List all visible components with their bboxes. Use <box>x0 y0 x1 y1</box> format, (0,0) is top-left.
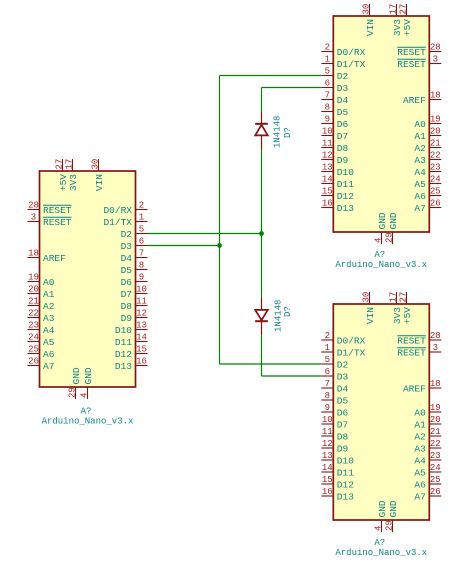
A?-topright pin 24 (A5) <box>414 175 441 190</box>
svg-text:D2: D2 <box>337 359 349 370</box>
svg-text:GND: GND <box>83 367 94 384</box>
A?-topright pin 19 (A0) <box>414 115 441 130</box>
svg-text:A2: A2 <box>414 143 426 154</box>
A?-left pin 29 (GND) GND pin bottom <box>67 367 82 399</box>
A?-topright pin 4 (GND) GND pin bottom <box>373 212 388 244</box>
A?-left pin 8 (D5) <box>121 261 148 276</box>
svg-text:D9: D9 <box>337 443 349 454</box>
junction: left D2 net to diode column <box>259 231 264 236</box>
A?-left pin 28 (RESET) <box>28 201 72 216</box>
svg-text:RESET: RESET <box>43 205 72 216</box>
svg-text:28: 28 <box>430 43 441 53</box>
svg-text:+5V: +5V <box>402 19 413 36</box>
A?-botright pin 28 (RESET) <box>397 331 441 346</box>
A?-left pin 6 (D3) <box>121 237 148 252</box>
svg-text:D13: D13 <box>337 491 354 502</box>
svg-text:13: 13 <box>322 451 333 461</box>
svg-text:19: 19 <box>430 403 441 413</box>
svg-text:+5V: +5V <box>402 307 413 324</box>
svg-text:20: 20 <box>430 127 441 137</box>
svg-text:D13: D13 <box>337 203 354 214</box>
svg-text:D?: D? <box>283 127 293 138</box>
svg-text:D11: D11 <box>337 467 354 478</box>
svg-text:15: 15 <box>322 475 333 485</box>
wire: diode D1 top to top-right A? D3 (pin6) <box>262 87 322 89</box>
svg-text:D11: D11 <box>337 179 354 190</box>
svg-text:A2: A2 <box>414 431 426 442</box>
svg-text:A3: A3 <box>414 155 426 166</box>
svg-text:D10: D10 <box>115 325 132 336</box>
A?-botright pin 23 (A4) <box>414 451 441 466</box>
svg-text:GND: GND <box>377 500 388 517</box>
diode D?-top 1N4148 <box>255 112 268 149</box>
A?-topright pin 18 (AREF) <box>403 91 441 106</box>
svg-text:A1: A1 <box>43 289 55 300</box>
wire: diode D2 bottom to bottom-right A? D3 (pin6) <box>262 375 322 377</box>
A?-topright pin 23 (A4) <box>414 163 441 178</box>
svg-text:D10: D10 <box>337 167 354 178</box>
svg-text:D10: D10 <box>337 455 354 466</box>
svg-text:14: 14 <box>322 463 333 473</box>
wire: top horizontal to top-right A? D2 (pin5) <box>220 75 322 77</box>
A?-left pin 15 (D12) <box>115 345 148 360</box>
A?-left pin 25 (A6) <box>28 345 55 360</box>
svg-text:A0: A0 <box>414 407 426 418</box>
svg-text:RESET: RESET <box>397 59 426 70</box>
A?-botright pin 22 (A3) <box>414 439 441 454</box>
svg-text:2: 2 <box>325 331 330 341</box>
A?-left pin 19 (A0) <box>28 273 55 288</box>
svg-text:27: 27 <box>54 159 64 170</box>
Arduino Nano A?-topright: body <box>333 16 429 232</box>
A?-topright pin 25 (A6) <box>414 187 441 202</box>
svg-text:2: 2 <box>139 201 144 211</box>
A?-left pin 27 (+5V) power pin top <box>54 159 69 191</box>
svg-text:RESET: RESET <box>397 47 426 58</box>
A?-topright pin 15 (D12) <box>321 187 354 202</box>
svg-text:D5: D5 <box>337 107 349 118</box>
diode D?-top reference D? <box>283 127 293 138</box>
A?-left pin 11 (D8) <box>121 297 148 312</box>
svg-text:22: 22 <box>28 309 39 319</box>
svg-text:4: 4 <box>373 238 383 243</box>
svg-text:25: 25 <box>28 345 39 355</box>
svg-text:25: 25 <box>430 187 441 197</box>
svg-text:3: 3 <box>433 55 438 65</box>
svg-text:D6: D6 <box>337 119 349 130</box>
svg-text:D1/TX: D1/TX <box>337 347 366 358</box>
A?-botright pin 13 (D10) <box>321 451 354 466</box>
svg-text:D6: D6 <box>121 277 133 288</box>
A?-topright pin 1 (D1/TX) <box>321 55 365 70</box>
svg-text:RESET: RESET <box>397 347 426 358</box>
A?-topright pin 27 (+5V) power pin top <box>398 4 413 36</box>
svg-text:15: 15 <box>322 187 333 197</box>
svg-text:A7: A7 <box>414 203 425 214</box>
A?-left pin 9 (D6) <box>121 273 148 288</box>
svg-text:GND: GND <box>388 212 399 229</box>
A?-topright pin 16 (D13) <box>321 199 354 214</box>
svg-text:14: 14 <box>322 175 333 185</box>
svg-text:AREF: AREF <box>403 95 426 106</box>
A?-botright pin 4 (GND) GND pin bottom <box>373 500 388 532</box>
diode D?-bottom reference D? <box>283 306 293 317</box>
svg-text:D13: D13 <box>115 361 132 372</box>
svg-text:A0: A0 <box>414 119 426 130</box>
svg-text:3V3: 3V3 <box>68 174 79 191</box>
svg-text:16: 16 <box>136 357 147 367</box>
svg-text:GND: GND <box>377 212 388 229</box>
svg-text:24: 24 <box>430 463 441 473</box>
svg-text:12: 12 <box>322 439 333 449</box>
svg-text:GND: GND <box>388 500 399 517</box>
wire: vertical bus connecting top-right D2 and bottom-right D2 <box>219 76 221 365</box>
svg-text:14: 14 <box>136 333 147 343</box>
svg-text:A1: A1 <box>414 131 426 142</box>
svg-text:D11: D11 <box>115 337 132 348</box>
A?-botright pin 12 (D9) <box>321 439 348 454</box>
svg-text:13: 13 <box>322 163 333 173</box>
svg-text:A5: A5 <box>414 179 426 190</box>
svg-text:D8: D8 <box>121 301 133 312</box>
svg-text:26: 26 <box>28 357 39 367</box>
wire: left A? D3 (pin6) to vertical bus <box>148 245 220 247</box>
A?-topright pin 21 (A2) <box>414 139 441 154</box>
svg-text:AREF: AREF <box>403 383 426 394</box>
A?-topright pin 3 (RESET) <box>397 55 441 70</box>
svg-text:1: 1 <box>325 55 330 65</box>
A?-left pin 22 (A3) <box>28 309 55 324</box>
A?-topright pin 30 (VIN) power pin top <box>361 4 376 36</box>
A?-topright pin 13 (D10) <box>321 163 354 178</box>
svg-text:13: 13 <box>136 321 147 331</box>
svg-text:20: 20 <box>430 415 441 425</box>
A?-botright pin 26 (A7) <box>414 487 441 502</box>
svg-text:24: 24 <box>430 175 441 185</box>
A?-botright pin 24 (A5) <box>414 463 441 478</box>
A?-topright pin 17 (3V3) power pin top <box>388 4 403 36</box>
svg-text:18: 18 <box>430 91 441 101</box>
svg-text:D3: D3 <box>337 83 349 94</box>
svg-text:A5: A5 <box>414 467 426 478</box>
svg-text:A6: A6 <box>43 349 55 360</box>
svg-text:D9: D9 <box>337 155 349 166</box>
diode D?-top value 1N4148 <box>273 116 283 148</box>
A?-left value Arduino_Nano_v3.x <box>42 417 134 427</box>
svg-text:A?: A? <box>81 407 92 417</box>
svg-text:29: 29 <box>384 520 394 531</box>
A?-left pin 23 (A4) <box>28 321 55 336</box>
A?-left pin 24 (A5) <box>28 333 55 348</box>
svg-text:17: 17 <box>64 159 74 170</box>
svg-text:23: 23 <box>430 451 441 461</box>
svg-text:D4: D4 <box>337 95 349 106</box>
svg-text:Arduino_Nano_v3.x: Arduino_Nano_v3.x <box>335 548 427 558</box>
svg-text:A4: A4 <box>43 325 55 336</box>
svg-text:A4: A4 <box>414 167 426 178</box>
svg-text:19: 19 <box>28 273 39 283</box>
A?-left pin 4 (GND) GND pin bottom <box>79 367 94 399</box>
svg-text:10: 10 <box>322 127 333 137</box>
svg-text:24: 24 <box>28 333 39 343</box>
svg-text:A?: A? <box>374 538 385 548</box>
svg-text:A1: A1 <box>414 419 426 430</box>
svg-text:A2: A2 <box>43 301 55 312</box>
svg-text:17: 17 <box>388 4 398 15</box>
A?-botright pin 5 (D2) <box>321 355 348 370</box>
A?-botright pin 29 (GND) GND pin bottom <box>384 500 399 532</box>
svg-text:A7: A7 <box>414 491 425 502</box>
A?-topright pin 6 (D3) <box>321 79 348 94</box>
A?-botright pin 16 (D13) <box>321 487 354 502</box>
A?-botright pin 18 (AREF) <box>403 379 441 394</box>
svg-text:D4: D4 <box>337 383 349 394</box>
svg-text:D7: D7 <box>121 289 132 300</box>
svg-text:AREF: AREF <box>43 253 66 264</box>
A?-botright pin 1 (D1/TX) <box>321 343 365 358</box>
junction: left D3 net to vertical bus <box>217 243 222 248</box>
svg-text:16: 16 <box>322 199 333 209</box>
Arduino Nano A?-botright: body <box>333 304 429 520</box>
svg-text:D8: D8 <box>337 431 349 442</box>
A?-topright pin 7 (D4) <box>321 91 348 106</box>
A?-left pin 12 (D9) <box>121 309 148 324</box>
A?-left pin 3 (RESET) <box>28 213 72 228</box>
wire: bottom horizontal to bottom-right A? D2 (pin5) <box>220 363 322 365</box>
svg-text:9: 9 <box>325 115 330 125</box>
A?-botright pin 17 (3V3) power pin top <box>388 292 403 324</box>
A?-topright pin 22 (A3) <box>414 151 441 166</box>
svg-text:A4: A4 <box>414 455 426 466</box>
A?-botright pin 3 (RESET) <box>397 343 441 358</box>
svg-text:RESET: RESET <box>43 217 72 228</box>
A?-botright pin 14 (D11) <box>321 463 354 478</box>
svg-text:D2: D2 <box>121 229 133 240</box>
A?-topright pin 20 (A1) <box>414 127 441 142</box>
A?-topright pin 12 (D9) <box>321 151 348 166</box>
A?-left pin 7 (D4) <box>121 249 148 264</box>
svg-text:D?: D? <box>283 306 293 317</box>
svg-text:1N4148: 1N4148 <box>274 300 284 332</box>
A?-botright pin 8 (D5) <box>321 391 348 406</box>
svg-text:10: 10 <box>136 285 147 295</box>
svg-text:7: 7 <box>139 249 144 259</box>
svg-text:D1/TX: D1/TX <box>103 217 132 228</box>
svg-text:3: 3 <box>31 213 36 223</box>
A?-botright pin 21 (A2) <box>414 427 441 442</box>
svg-text:D7: D7 <box>337 131 348 142</box>
svg-text:29: 29 <box>67 387 77 398</box>
svg-text:D7: D7 <box>337 419 348 430</box>
svg-text:9: 9 <box>325 403 330 413</box>
Arduino Nano A?-left: body <box>40 171 136 387</box>
A?-topright pin 8 (D5) <box>321 103 348 118</box>
svg-text:D0/RX: D0/RX <box>103 205 132 216</box>
svg-text:A?: A? <box>374 250 385 260</box>
svg-text:A3: A3 <box>43 313 55 324</box>
svg-text:3: 3 <box>433 343 438 353</box>
A?-botright value Arduino_Nano_v3.x <box>335 548 427 558</box>
svg-text:1N4148: 1N4148 <box>273 116 283 148</box>
svg-text:5: 5 <box>139 225 144 235</box>
A?-left pin 30 (VIN) power pin top <box>90 159 105 191</box>
A?-left pin 21 (A2) <box>28 297 55 312</box>
svg-text:A6: A6 <box>414 479 426 490</box>
svg-text:21: 21 <box>28 297 39 307</box>
svg-text:VIN: VIN <box>94 174 105 191</box>
A?-topright pin 2 (D0/RX) <box>321 43 365 58</box>
svg-text:6: 6 <box>325 367 330 377</box>
A?-botright pin 2 (D0/RX) <box>321 331 365 346</box>
svg-text:D5: D5 <box>121 265 133 276</box>
A?-topright pin 29 (GND) GND pin bottom <box>384 212 399 244</box>
svg-text:D3: D3 <box>121 241 133 252</box>
svg-text:D1/TX: D1/TX <box>337 59 366 70</box>
A?-botright pin 10 (D7) <box>321 415 348 430</box>
svg-text:D8: D8 <box>337 143 349 154</box>
svg-text:8: 8 <box>139 261 144 271</box>
A?-botright pin 30 (VIN) power pin top <box>361 292 376 324</box>
svg-text:7: 7 <box>325 91 330 101</box>
A?-botright pin 7 (D4) <box>321 379 348 394</box>
A?-botright pin 11 (D8) <box>321 427 348 442</box>
svg-text:21: 21 <box>430 427 441 437</box>
svg-text:1: 1 <box>139 213 144 223</box>
A?-topright pin 10 (D7) <box>321 127 348 142</box>
svg-text:23: 23 <box>28 321 39 331</box>
diode D?-bottom value 1N4148 <box>274 300 284 332</box>
A?-left pin 16 (D13) <box>115 357 148 372</box>
wire: diode column between D1 and junction <box>261 149 263 234</box>
svg-text:26: 26 <box>430 487 441 497</box>
svg-text:28: 28 <box>430 331 441 341</box>
wire: diode column upper green segment <box>261 88 263 113</box>
svg-text:A5: A5 <box>43 337 55 348</box>
diode D?-bottom 1N4148 <box>255 298 268 336</box>
svg-text:D12: D12 <box>337 479 354 490</box>
svg-text:D12: D12 <box>337 191 354 202</box>
A?-left pin 26 (A7) <box>28 357 55 372</box>
A?-botright pin 15 (D12) <box>321 475 354 490</box>
svg-text:5: 5 <box>325 355 330 365</box>
svg-text:20: 20 <box>28 285 39 295</box>
A?-left pin 18 (AREF) <box>28 249 67 264</box>
A?-topright pin 26 (A7) <box>414 199 441 214</box>
A?-topright pin 9 (D6) <box>321 115 348 130</box>
A?-left pin 5 (D2) <box>121 225 148 240</box>
svg-text:D0/RX: D0/RX <box>337 335 366 346</box>
svg-text:11: 11 <box>136 297 147 307</box>
svg-text:26: 26 <box>430 199 441 209</box>
svg-text:6: 6 <box>139 237 144 247</box>
svg-text:A3: A3 <box>414 443 426 454</box>
svg-text:22: 22 <box>430 151 441 161</box>
svg-text:16: 16 <box>322 487 333 497</box>
A?-left pin 2 (D0/RX) <box>103 201 147 216</box>
svg-text:D6: D6 <box>337 407 349 418</box>
svg-text:D12: D12 <box>115 349 132 360</box>
svg-text:1: 1 <box>325 343 330 353</box>
svg-text:28: 28 <box>28 201 39 211</box>
A?-left pin 20 (A1) <box>28 285 55 300</box>
svg-text:8: 8 <box>325 391 330 401</box>
svg-text:12: 12 <box>136 309 147 319</box>
wire: diode column lower green segment <box>261 335 263 376</box>
A?-left reference A? <box>81 407 92 417</box>
svg-text:D2: D2 <box>337 71 349 82</box>
svg-text:VIN: VIN <box>365 19 376 36</box>
svg-text:7: 7 <box>325 379 330 389</box>
A?-botright pin 19 (A0) <box>414 403 441 418</box>
svg-text:5: 5 <box>325 67 330 77</box>
svg-text:D5: D5 <box>337 395 349 406</box>
A?-topright pin 11 (D8) <box>321 139 348 154</box>
svg-text:RESET: RESET <box>397 335 426 346</box>
svg-text:18: 18 <box>28 249 39 259</box>
svg-text:29: 29 <box>384 232 394 243</box>
svg-text:27: 27 <box>398 4 408 15</box>
wire: diode column between junction and D2 <box>261 234 263 298</box>
A?-left pin 1 (D1/TX) <box>103 213 147 228</box>
svg-text:12: 12 <box>322 151 333 161</box>
A?-botright pin 20 (A1) <box>414 415 441 430</box>
svg-text:GND: GND <box>71 367 82 384</box>
A?-topright pin 14 (D11) <box>321 175 354 190</box>
A?-left pin 17 (3V3) power pin top <box>64 159 79 191</box>
svg-text:A7: A7 <box>43 361 54 372</box>
svg-text:Arduino_Nano_v3.x: Arduino_Nano_v3.x <box>335 260 427 270</box>
A?-botright pin 27 (+5V) power pin top <box>398 292 413 324</box>
svg-text:21: 21 <box>430 139 441 149</box>
svg-text:D3: D3 <box>337 371 349 382</box>
svg-text:Arduino_Nano_v3.x: Arduino_Nano_v3.x <box>42 417 134 427</box>
svg-text:11: 11 <box>322 427 333 437</box>
svg-text:VIN: VIN <box>365 307 376 324</box>
svg-text:9: 9 <box>139 273 144 283</box>
svg-text:A0: A0 <box>43 277 55 288</box>
A?-left pin 10 (D7) <box>121 285 148 300</box>
svg-text:18: 18 <box>430 379 441 389</box>
A?-topright pin 5 (D2) <box>321 67 348 82</box>
svg-text:2: 2 <box>325 43 330 53</box>
A?-botright pin 6 (D3) <box>321 367 348 382</box>
svg-text:8: 8 <box>325 103 330 113</box>
svg-text:25: 25 <box>430 475 441 485</box>
A?-botright pin 25 (A6) <box>414 475 441 490</box>
svg-text:30: 30 <box>361 292 371 303</box>
svg-text:15: 15 <box>136 345 147 355</box>
svg-text:D9: D9 <box>121 313 133 324</box>
svg-text:D4: D4 <box>121 253 133 264</box>
svg-text:4: 4 <box>79 393 89 398</box>
svg-text:19: 19 <box>430 115 441 125</box>
A?-left pin 13 (D10) <box>115 321 148 336</box>
A?-left pin 14 (D11) <box>115 333 148 348</box>
svg-text:10: 10 <box>322 415 333 425</box>
A?-botright pin 9 (D6) <box>321 403 348 418</box>
svg-text:A6: A6 <box>414 191 426 202</box>
svg-text:27: 27 <box>398 292 408 303</box>
svg-text:23: 23 <box>430 163 441 173</box>
A?-topright pin 28 (RESET) <box>397 43 441 58</box>
A?-topright reference A? <box>374 250 385 260</box>
A?-topright value Arduino_Nano_v3.x <box>335 260 427 270</box>
svg-text:30: 30 <box>90 159 100 170</box>
A?-botright reference A? <box>374 538 385 548</box>
svg-text:4: 4 <box>373 526 383 531</box>
svg-text:11: 11 <box>322 139 333 149</box>
svg-text:17: 17 <box>388 292 398 303</box>
